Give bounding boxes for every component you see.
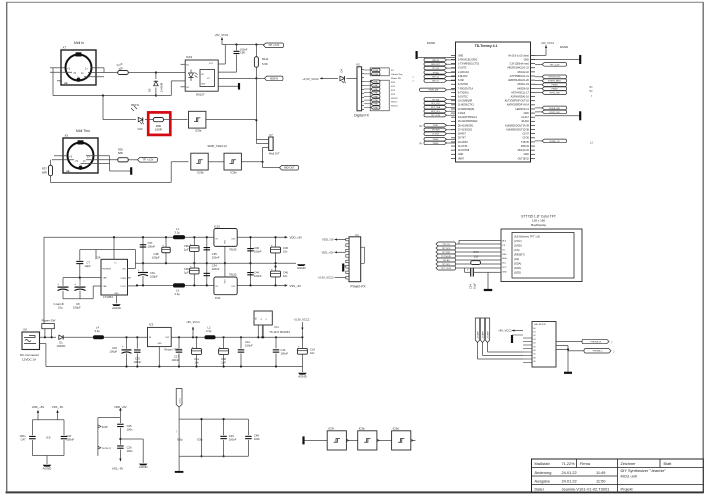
svg-text:IC2P: IC2P bbox=[102, 425, 108, 429]
svg-text:A15/MISO1/OUT1A-39: A15/MISO1/OUT1A-39 bbox=[505, 124, 530, 127]
svg-text:B6: B6 bbox=[534, 350, 536, 352]
svg-text:IC9p: IC9p bbox=[197, 438, 203, 442]
svg-text:100μF: 100μF bbox=[150, 275, 158, 279]
svg-text:RES: RES bbox=[502, 254, 507, 256]
svg-text:PWM1: PWM1 bbox=[373, 100, 378, 102]
svg-text:STOP_CLK: STOP_CLK bbox=[549, 112, 560, 114]
svg-text:6-OUT1D: 6-OUT1D bbox=[458, 84, 468, 86]
svg-text:79L05: 79L05 bbox=[229, 247, 237, 251]
svg-text:Vin (3,6 to 5,5 volts): Vin (3,6 to 5,5 volts) bbox=[508, 54, 529, 57]
svg-text:207/4072: 207/4072 bbox=[102, 448, 112, 450]
svg-text:C14: C14 bbox=[310, 348, 315, 352]
svg-text:A0/RX3/SPDIF-IN-14: A0/RX3/SPDIF-IN-14 bbox=[507, 104, 530, 107]
svg-text:C11: C11 bbox=[194, 357, 199, 361]
svg-text:C45: C45 bbox=[283, 246, 288, 250]
svg-text:32-OUT1B: 32-OUT1B bbox=[458, 150, 470, 152]
svg-text:K2: K2 bbox=[357, 63, 361, 67]
svg-text:ENC_A: ENC_A bbox=[432, 76, 439, 79]
svg-text:PHONE_L: PHONE_L bbox=[593, 351, 604, 353]
svg-text:PWM2: PWM2 bbox=[433, 143, 439, 145]
svg-text:PWM1: PWM1 bbox=[373, 89, 378, 91]
svg-text:B5: B5 bbox=[534, 346, 536, 348]
svg-text:100n: 100n bbox=[127, 449, 133, 453]
svg-text:VDD_+5V: VDD_+5V bbox=[321, 250, 333, 254]
svg-text:PWM1: PWM1 bbox=[373, 107, 378, 109]
svg-text:68R: 68R bbox=[42, 171, 47, 175]
svg-text:DC-Connector: DC-Connector bbox=[20, 353, 39, 357]
svg-text:24.01.22: 24.01.22 bbox=[562, 470, 577, 475]
svg-text:IC9c: IC9c bbox=[359, 427, 366, 431]
svg-text:PHONE_R: PHONE_R bbox=[591, 341, 602, 343]
svg-text:1>: 1> bbox=[87, 155, 90, 159]
svg-text:(AZ-Delivery TFT 1.8): (AZ-Delivery TFT 1.8) bbox=[514, 234, 540, 238]
svg-text:VDD_+5V: VDD_+5V bbox=[114, 405, 127, 409]
svg-text:68R: 68R bbox=[118, 151, 123, 155]
svg-text:K8: K8 bbox=[24, 328, 28, 332]
svg-text:D10: D10 bbox=[138, 127, 143, 131]
svg-text:L3: L3 bbox=[176, 289, 179, 293]
svg-text:C5-37: C5-37 bbox=[522, 134, 529, 136]
svg-text:Midi In: Midi In bbox=[74, 41, 84, 45]
svg-text:71,22%: 71,22% bbox=[562, 461, 576, 466]
svg-text:100nF: 100nF bbox=[67, 437, 75, 441]
svg-text:+5V/AMP: +5V/AMP bbox=[482, 331, 485, 339]
svg-text:D4: D4 bbox=[340, 69, 344, 73]
svg-text:Ausgabe: Ausgabe bbox=[535, 478, 550, 483]
svg-text:100n: 100n bbox=[254, 437, 260, 441]
svg-text:GND: GND bbox=[201, 84, 206, 86]
svg-text:TX8-35: TX8-35 bbox=[521, 142, 529, 144]
svg-text:(A0): (A0) bbox=[514, 257, 519, 261]
svg-text:DC: DC bbox=[502, 249, 506, 251]
svg-text:C46: C46 bbox=[283, 271, 288, 275]
svg-text:SYNTH_SCK: SYNTH_SCK bbox=[549, 77, 562, 79]
svg-text:HE: HE bbox=[66, 169, 70, 173]
svg-text:5-IN2: 5-IN2 bbox=[458, 80, 464, 82]
svg-text:VDD_+5V: VDD_+5V bbox=[32, 405, 45, 409]
svg-text:MIDI IN: MIDI IN bbox=[270, 78, 278, 80]
svg-text:6N137: 6N137 bbox=[196, 93, 205, 97]
svg-text:GND: GND bbox=[458, 55, 463, 57]
svg-text:Projekt: Projekt bbox=[621, 486, 634, 491]
svg-text:LED/SCK-13: LED/SCK-13 bbox=[515, 109, 529, 111]
svg-text:11:50: 11:50 bbox=[596, 478, 606, 483]
svg-text:K7: K7 bbox=[270, 133, 274, 137]
svg-text:27-A13/SCK1: 27-A13/SCK1 bbox=[458, 128, 473, 131]
svg-text:+3,3V_VCC2: +3,3V_VCC2 bbox=[302, 77, 319, 81]
svg-text:IC9b: IC9b bbox=[197, 171, 204, 175]
svg-text:3.3μ: 3.3μ bbox=[206, 329, 212, 333]
svg-text:(CS): (CS) bbox=[514, 248, 520, 252]
svg-text:28-RX7: 28-RX7 bbox=[458, 134, 467, 136]
svg-text:MCLK2-33: MCLK2-33 bbox=[518, 150, 530, 152]
svg-text:100n: 100n bbox=[127, 427, 133, 431]
svg-text:R44: R44 bbox=[474, 250, 479, 254]
svg-text:IC5: IC5 bbox=[46, 436, 51, 440]
svg-text:41-A17: 41-A17 bbox=[521, 116, 529, 119]
svg-text:L4: L4 bbox=[96, 326, 99, 330]
svg-text:AGND: AGND bbox=[43, 466, 53, 470]
svg-text:A6/RX5/LRCLK1-20: A6/RX5/LRCLK1-20 bbox=[508, 79, 530, 82]
svg-text:5-RX/VIC51/CRX2: 5-RX/VIC51/CRX2 bbox=[458, 59, 478, 61]
svg-text:L2: L2 bbox=[208, 326, 211, 330]
svg-text:IC9e: IC9e bbox=[231, 171, 238, 175]
svg-text:B1: B1 bbox=[534, 332, 536, 334]
svg-text:100nF: 100nF bbox=[212, 267, 220, 271]
svg-text:100μF: 100μF bbox=[152, 256, 160, 260]
svg-text:PWM1: PWM1 bbox=[373, 96, 378, 98]
svg-text:C7: C7 bbox=[87, 260, 91, 264]
svg-text:10v: 10v bbox=[194, 360, 199, 364]
svg-text:TFT +3,3V: TFT +3,3V bbox=[431, 115, 441, 117]
svg-text:26-A12/MOSI1: 26-A12/MOSI1 bbox=[458, 124, 474, 127]
svg-text:Power-FX: Power-FX bbox=[350, 284, 366, 288]
svg-text:C13: C13 bbox=[281, 348, 286, 352]
svg-text:NC: NC bbox=[186, 87, 190, 89]
svg-text:TFT MOSI: TFT MOSI bbox=[441, 256, 451, 258]
svg-text:TFT R/S: TFT R/S bbox=[432, 99, 440, 101]
svg-text:100nF: 100nF bbox=[281, 352, 289, 356]
svg-text:MCLK2-22: MCLK2-22 bbox=[518, 72, 530, 74]
svg-text:X7: X7 bbox=[63, 46, 67, 50]
svg-text:C48: C48 bbox=[254, 434, 259, 438]
svg-text:C49: C49 bbox=[229, 434, 234, 438]
svg-text:R37: R37 bbox=[42, 167, 47, 171]
svg-text:MCP_SCL: MCP_SCL bbox=[431, 111, 440, 113]
svg-text:Midi O/T: Midi O/T bbox=[269, 152, 280, 156]
svg-text:1-TX/VMISO1/CTX2: 1-TX/VMISO1/CTX2 bbox=[458, 64, 480, 66]
svg-text:10v: 10v bbox=[310, 351, 315, 355]
svg-text:TFT A0: TFT A0 bbox=[432, 71, 438, 74]
svg-text:PWM1: PWM1 bbox=[373, 85, 378, 87]
svg-text:C54: C54 bbox=[469, 284, 473, 289]
svg-text:C12: C12 bbox=[245, 340, 250, 344]
svg-text:CAP-: CAP- bbox=[103, 285, 108, 288]
svg-text:4>: 4> bbox=[83, 159, 86, 163]
svg-text:10-CS/MQSR: 10-CS/MQSR bbox=[458, 101, 473, 103]
svg-text:GND: GND bbox=[524, 154, 529, 156]
svg-text:1N4148: 1N4148 bbox=[160, 82, 164, 92]
svg-text:100nF: 100nF bbox=[254, 274, 262, 278]
svg-text:OUT: OUT bbox=[165, 337, 170, 339]
svg-text:B2: B2 bbox=[534, 335, 536, 337]
svg-text:MIDI-OUT: MIDI-OUT bbox=[284, 168, 295, 170]
svg-text:25-A11/RX6/SDA2: 25-A11/RX6/SDA2 bbox=[458, 120, 478, 123]
svg-text:GND: GND bbox=[114, 293, 119, 295]
svg-text:+5V_VCC1: +5V_VCC1 bbox=[541, 41, 555, 45]
svg-text:2-LRCLK2: 2-LRCLK2 bbox=[458, 72, 470, 74]
svg-text:PWM1: PWM1 bbox=[373, 82, 378, 84]
svg-text:SW.16: SW.16 bbox=[391, 98, 398, 100]
svg-text:3.3μ: 3.3μ bbox=[95, 329, 101, 333]
svg-text:MIDI IN: MIDI IN bbox=[432, 60, 439, 62]
svg-text:TFT +3,3V: TFT +3,3V bbox=[550, 64, 560, 66]
svg-text:IC9d: IC9d bbox=[393, 427, 400, 431]
svg-text:B0: B0 bbox=[534, 328, 536, 330]
svg-text:R111: R111 bbox=[262, 57, 269, 61]
svg-text:Vibrato/Trig: Vibrato/Trig bbox=[391, 73, 403, 76]
svg-text:AGND: AGND bbox=[297, 266, 307, 270]
svg-text:10v: 10v bbox=[283, 250, 288, 254]
svg-text:ENC_B: ENC_B bbox=[432, 81, 439, 83]
svg-text:A1/TX3/SPDIF-OUT-15: A1/TX3/SPDIF-OUT-15 bbox=[505, 100, 530, 103]
svg-text:R36: R36 bbox=[118, 148, 123, 152]
svg-text:+5V/AMP: +5V/AMP bbox=[477, 331, 480, 339]
svg-text:PWM4: PWM4 bbox=[373, 70, 378, 72]
svg-text:LT1054: LT1054 bbox=[103, 295, 113, 299]
svg-text:PSON_DIN: PSON_DIN bbox=[428, 90, 438, 92]
svg-text:A9/CRX1/MCLK1-23: A9/CRX1/MCLK1-23 bbox=[507, 67, 529, 70]
svg-text:Maßstab: Maßstab bbox=[535, 461, 550, 466]
svg-text:IC9f: IC9f bbox=[328, 427, 334, 431]
svg-text:12VDC 1A: 12VDC 1A bbox=[22, 358, 36, 362]
svg-text:9-OUT1C: 9-OUT1C bbox=[458, 97, 468, 99]
svg-text:C27: C27 bbox=[67, 434, 72, 438]
svg-text:HE: HE bbox=[64, 81, 68, 85]
svg-text:11:49: 11:49 bbox=[596, 470, 605, 475]
svg-text:5.6K: 5.6K bbox=[262, 62, 268, 66]
svg-text:NOISE_CS: NOISE_CS bbox=[549, 141, 560, 143]
svg-text:MCU unit: MCU unit bbox=[621, 474, 638, 479]
svg-text:31-CTX3: 31-CTX3 bbox=[458, 146, 468, 148]
svg-text:A2/RX4/SDA1-16: A2/RX4/SDA1-16 bbox=[511, 96, 530, 99]
svg-text:SW.18: SW.18 bbox=[391, 106, 398, 108]
svg-text:GND: GND bbox=[225, 239, 227, 244]
svg-text:D9: D9 bbox=[148, 88, 152, 92]
svg-text:100n: 100n bbox=[20, 434, 26, 438]
svg-text:C28: C28 bbox=[184, 267, 189, 271]
svg-text:): ) bbox=[614, 349, 615, 353]
svg-text:3.3μ: 3.3μ bbox=[175, 292, 181, 296]
svg-text:Datei: Datei bbox=[535, 486, 544, 491]
svg-text:VBAT: VBAT bbox=[458, 157, 464, 160]
svg-text:NC: NC bbox=[186, 64, 190, 66]
svg-text:PWM4: PWM4 bbox=[373, 74, 378, 76]
svg-text:7-RX2/OUT1A: 7-RX2/OUT1A bbox=[458, 87, 473, 90]
svg-text:C36: C36 bbox=[184, 244, 189, 248]
svg-text:IC4: IC4 bbox=[96, 256, 101, 260]
svg-text:GND: GND bbox=[502, 272, 507, 274]
svg-text:+5V_VCC1: +5V_VCC1 bbox=[214, 33, 229, 37]
svg-text:Zeichner: Zeichner bbox=[621, 461, 637, 466]
svg-text:TFT +3,3V: TFT +3,3V bbox=[441, 268, 451, 270]
svg-text:BLK: BLK bbox=[502, 240, 507, 242]
svg-text:VO: VO bbox=[207, 78, 210, 80]
svg-text:C47: C47 bbox=[21, 437, 26, 441]
svg-text:RX8-34: RX8-34 bbox=[521, 146, 530, 148]
svg-text:IC6p: IC6p bbox=[177, 438, 183, 442]
svg-text:BuyDisplay: BuyDisplay bbox=[531, 223, 547, 227]
svg-text:4-BLCK2: 4-BLCK2 bbox=[458, 76, 468, 78]
svg-text:B3: B3 bbox=[534, 339, 536, 341]
svg-text:B9: B9 bbox=[534, 361, 536, 363]
svg-text:TFT +3,3V: TFT +3,3V bbox=[268, 45, 279, 47]
svg-text:C8: C8 bbox=[76, 302, 80, 306]
svg-text:PWM1: PWM1 bbox=[373, 104, 378, 106]
svg-text:SCL_CLK: SCL_CLK bbox=[431, 103, 440, 105]
svg-text:30-CRX3: 30-CRX3 bbox=[458, 142, 468, 144]
svg-text:C23: C23 bbox=[135, 357, 140, 361]
svg-text:): ) bbox=[612, 340, 613, 344]
svg-text:Firma: Firma bbox=[580, 461, 591, 466]
svg-text:(SDA): (SDA) bbox=[514, 262, 521, 266]
svg-text:TFT SCL: TFT SCL bbox=[442, 264, 451, 266]
svg-text:C10: C10 bbox=[112, 346, 117, 350]
svg-text:C57: C57 bbox=[148, 241, 153, 245]
svg-text:100nF: 100nF bbox=[229, 437, 237, 441]
svg-text:10μF: 10μF bbox=[85, 264, 92, 268]
svg-text:Midi Thru: Midi Thru bbox=[76, 129, 90, 133]
svg-text:+3.3V_VCC2: +3.3V_VCC2 bbox=[318, 276, 334, 280]
svg-text:10μ: 10μ bbox=[58, 306, 63, 310]
svg-text:100nF: 100nF bbox=[172, 358, 180, 362]
svg-text:11-MOSI/CTX1: 11-MOSI/CTX1 bbox=[458, 105, 474, 107]
svg-text:Blatt: Blatt bbox=[664, 461, 673, 466]
svg-text:Digital FX: Digital FX bbox=[354, 113, 369, 117]
svg-text:PWM1: PWM1 bbox=[373, 93, 378, 95]
svg-text:Modw. I/R: Modw. I/R bbox=[391, 78, 401, 80]
svg-text:TFT SDR: TFT SDR bbox=[432, 130, 441, 132]
svg-text:X3: X3 bbox=[65, 134, 69, 138]
svg-text:C44: C44 bbox=[254, 271, 259, 275]
svg-text:OUT1B-32: OUT1B-32 bbox=[518, 158, 530, 160]
svg-text:OUT: OUT bbox=[231, 238, 236, 240]
svg-text:4>: 4> bbox=[81, 71, 84, 75]
svg-text:C25: C25 bbox=[127, 424, 132, 428]
svg-text:GND: GND bbox=[157, 343, 162, 345]
svg-text:DGND: DGND bbox=[560, 45, 568, 49]
svg-text:B4: B4 bbox=[534, 343, 536, 345]
svg-text:LT_SCK: LT_SCK bbox=[432, 134, 440, 136]
svg-text:AGND: AGND bbox=[298, 374, 308, 378]
svg-text:MIDI IN: MIDI IN bbox=[131, 104, 139, 107]
svg-text:A4/SDA-18: A4/SDA-18 bbox=[517, 87, 529, 90]
svg-text:100μF: 100μF bbox=[110, 350, 118, 354]
svg-text:100nF: 100nF bbox=[245, 344, 253, 348]
svg-text:TFT RST: TFT RST bbox=[442, 252, 451, 254]
svg-text:100nF: 100nF bbox=[133, 360, 141, 364]
svg-text:+5V_VCC1: +5V_VCC1 bbox=[186, 320, 200, 324]
svg-text:+5V/AMP: +5V/AMP bbox=[487, 331, 490, 339]
svg-text:B8: B8 bbox=[534, 357, 536, 359]
svg-text:(VCC): (VCC) bbox=[514, 239, 522, 243]
svg-text:DGND: DGND bbox=[427, 41, 435, 45]
svg-text:AGND: AGND bbox=[139, 465, 149, 469]
svg-text:TS 1117 BCW33: TS 1117 BCW33 bbox=[269, 330, 290, 334]
svg-text:1μF: 1μF bbox=[184, 271, 189, 275]
svg-text:VDD_-5V: VDD_-5V bbox=[322, 238, 334, 242]
svg-text:+5V_VCC1: +5V_VCC1 bbox=[498, 329, 512, 333]
svg-text:C38: C38 bbox=[154, 252, 159, 256]
svg-text:1>: 1> bbox=[85, 67, 88, 71]
svg-text:+3,3V2: +3,3V2 bbox=[179, 398, 181, 404]
svg-text:GND: GND bbox=[225, 279, 227, 284]
svg-text:TFT A0: TFT A0 bbox=[443, 259, 451, 262]
svg-text:B7: B7 bbox=[534, 354, 536, 356]
svg-text:SMD_74HC14: SMD_74HC14 bbox=[207, 144, 227, 148]
svg-text:A14/MISO/OUT1D-38: A14/MISO/OUT1D-38 bbox=[506, 128, 529, 131]
svg-text:VCC: VCC bbox=[209, 63, 214, 65]
svg-text:C39: C39 bbox=[254, 246, 259, 250]
svg-text:PWM1: PWM1 bbox=[433, 139, 439, 141]
svg-text:24-A10/TX6/SCL2: 24-A10/TX6/SCL2 bbox=[458, 116, 478, 119]
svg-text:IC9a: IC9a bbox=[195, 129, 202, 133]
svg-text:TFT CS: TFT CS bbox=[432, 68, 439, 70]
svg-text:VSS_-5V: VSS_-5V bbox=[290, 284, 302, 288]
svg-text:PWM4: PWM4 bbox=[552, 89, 559, 91]
svg-text:VCC: VCC bbox=[502, 267, 507, 269]
svg-text:A3/TX4/SCL1-17: A3/TX4/SCL1-17 bbox=[511, 91, 529, 94]
svg-text:128 x 160: 128 x 160 bbox=[532, 219, 546, 223]
svg-text:SDA: SDA bbox=[502, 257, 507, 260]
svg-text:24.01.22: 24.01.22 bbox=[562, 478, 577, 483]
svg-text:C26: C26 bbox=[127, 446, 132, 450]
svg-text:1N4001: 1N4001 bbox=[56, 344, 66, 348]
svg-text:C17: C17 bbox=[174, 355, 179, 359]
svg-text:10μF: 10μF bbox=[473, 283, 477, 289]
svg-text:DAC-MCP48: DAC-MCP48 bbox=[534, 323, 546, 326]
svg-text:A5/SCL-19: A5/SCL-19 bbox=[517, 83, 529, 86]
svg-text:100nF: 100nF bbox=[254, 250, 262, 254]
svg-text:C34: C34 bbox=[212, 264, 217, 268]
svg-text:MCP_SDA: MCP_SDA bbox=[431, 106, 441, 109]
svg-text:+3,3V_VCC2: +3,3V_VCC2 bbox=[294, 318, 310, 322]
svg-text:VSS_-5V: VSS_-5V bbox=[52, 405, 64, 409]
svg-text:D1: D1 bbox=[59, 341, 63, 345]
svg-text:100nF: 100nF bbox=[212, 256, 220, 260]
svg-text:12-MISO/MQSL: 12-MISO/MQSL bbox=[458, 109, 475, 111]
svg-text:GND: GND bbox=[524, 113, 529, 115]
svg-text:2>: 2> bbox=[79, 164, 82, 168]
svg-text:Jeannie-V101-V1-02.T3001: Jeannie-V101-V1-02.T3001 bbox=[562, 486, 610, 491]
svg-text:FB/SHDN: FB/SHDN bbox=[103, 269, 112, 271]
svg-text:IC19: IC19 bbox=[186, 55, 192, 59]
svg-text:Änderung: Änderung bbox=[535, 470, 552, 475]
svg-text:C50: C50 bbox=[221, 357, 226, 361]
svg-text:A7/TX5/BCLK1-21: A7/TX5/BCLK1-21 bbox=[510, 75, 530, 78]
svg-text:FX2K: FX2K bbox=[433, 125, 438, 127]
svg-text:IC1: IC1 bbox=[275, 325, 280, 329]
svg-text:3.3μ: 3.3μ bbox=[175, 231, 181, 235]
svg-text:IC3: IC3 bbox=[149, 323, 154, 327]
svg-text:100μF: 100μF bbox=[73, 306, 81, 310]
svg-text:10v: 10v bbox=[283, 274, 288, 278]
svg-text:OSC: OSC bbox=[122, 269, 127, 271]
svg-text:8-TX2/IN1: 8-TX2/IN1 bbox=[458, 92, 469, 94]
svg-text:TFT +3,3V: TFT +3,3V bbox=[142, 160, 153, 162]
svg-text:AGND: AGND bbox=[112, 306, 122, 310]
svg-text:IC11: IC11 bbox=[215, 296, 221, 300]
svg-text:TFT SCK: TFT SCK bbox=[442, 248, 451, 250]
svg-text:(RESET): (RESET) bbox=[514, 253, 525, 257]
svg-text:C98: C98 bbox=[240, 51, 245, 55]
svg-text:C35: C35 bbox=[212, 252, 217, 256]
svg-text:29-TX7: 29-TX7 bbox=[458, 138, 466, 140]
svg-text:VSS_-5V: VSS_-5V bbox=[112, 467, 124, 471]
svg-text:GND: GND bbox=[524, 59, 529, 61]
svg-text:V REF: V REF bbox=[120, 278, 126, 280]
svg-text:MIDI-OUT: MIDI-OUT bbox=[431, 64, 440, 66]
svg-text:(SCK): (SCK) bbox=[514, 266, 521, 270]
svg-text:3,3V (250mA max): 3,3V (250mA max) bbox=[510, 63, 530, 66]
svg-text:V OUT: V OUT bbox=[120, 286, 127, 288]
svg-text:VDD_+5V: VDD_+5V bbox=[290, 236, 303, 240]
svg-text:SW.17: SW.17 bbox=[391, 102, 398, 104]
svg-text:40-A16: 40-A16 bbox=[521, 120, 529, 123]
svg-text:L1: L1 bbox=[176, 227, 179, 231]
svg-text:GND: GND bbox=[458, 154, 463, 156]
svg-text:1μF: 1μF bbox=[184, 248, 189, 252]
